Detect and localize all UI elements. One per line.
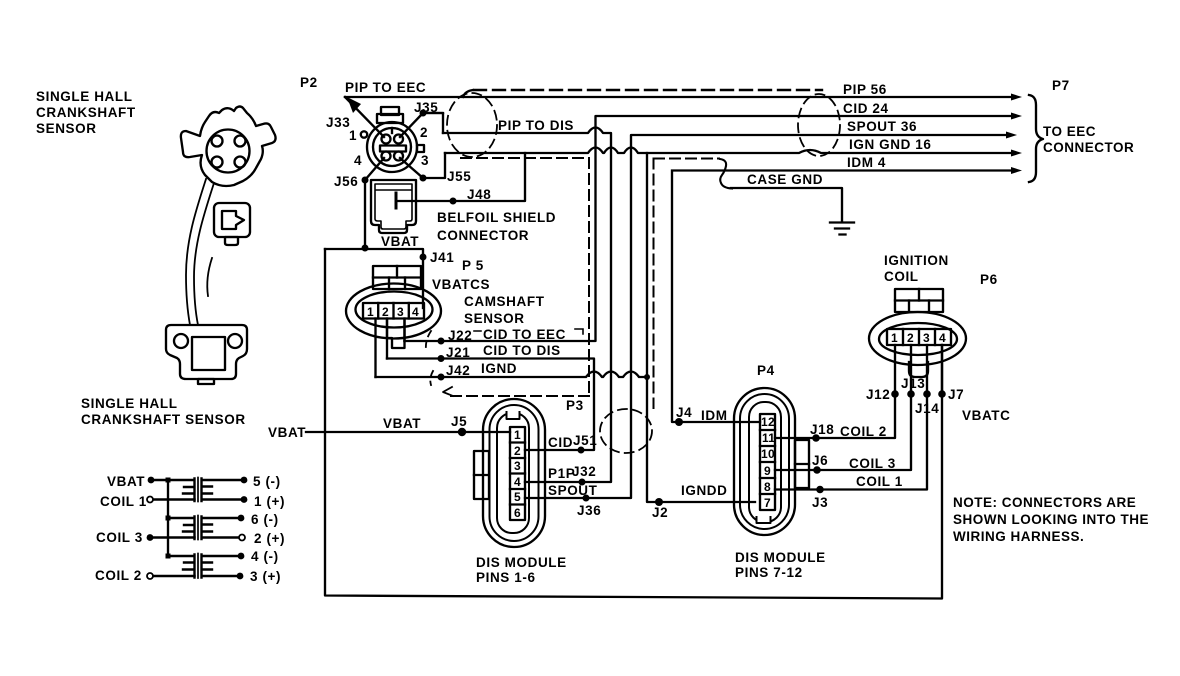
svg-text:COIL 1: COIL 1 xyxy=(100,494,147,509)
svg-text:VBAT: VBAT xyxy=(107,474,145,489)
svg-text:PINS 7-12: PINS 7-12 xyxy=(735,565,803,580)
svg-text:CONNECTOR: CONNECTOR xyxy=(1043,140,1134,155)
EEC arrowheads xyxy=(1011,94,1022,101)
shield dashes near camshaft wires xyxy=(426,331,431,350)
junction J56 xyxy=(362,177,369,184)
svg-text:COIL 3: COIL 3 xyxy=(849,456,896,471)
shield pigtail squiggle xyxy=(720,159,732,189)
svg-text:1: 1 xyxy=(367,305,374,319)
wire coil pin1 COIL 2 xyxy=(775,345,895,438)
svg-text:CRANKSHAFT SENSOR: CRANKSHAFT SENSOR xyxy=(81,412,246,427)
junction J22 xyxy=(438,338,445,345)
junction J35 xyxy=(420,110,427,117)
svg-text:2 (+): 2 (+) xyxy=(254,531,285,546)
svg-text:COIL: COIL xyxy=(884,269,919,284)
shield dashed line left channel xyxy=(451,158,589,396)
svg-text:DIS MODULE: DIS MODULE xyxy=(476,555,567,570)
shield dashed circle near EEC xyxy=(798,94,840,156)
svg-text:7: 7 xyxy=(764,496,771,510)
svg-text:11: 11 xyxy=(762,431,775,445)
svg-text:J21: J21 xyxy=(446,345,470,360)
svg-text:J13: J13 xyxy=(901,376,925,391)
crank sensor cable xyxy=(186,179,214,325)
svg-text:IGNITION: IGNITION xyxy=(884,253,949,268)
svg-text:DIS MODULE: DIS MODULE xyxy=(735,550,826,565)
svg-text:J18: J18 xyxy=(810,422,834,437)
wire J42 IGND xyxy=(376,372,648,378)
wire VBAT rail of windings xyxy=(167,480,169,556)
svg-text:5 (-): 5 (-) xyxy=(253,474,281,489)
svg-text:3: 3 xyxy=(514,459,521,473)
wire IGN GND long line xyxy=(445,148,1012,154)
connector P2 crank sensor xyxy=(361,107,424,172)
junction J42 xyxy=(438,374,445,381)
junction J13 xyxy=(907,390,915,398)
svg-text:IDM: IDM xyxy=(701,408,728,423)
label single hall crankshaft sensor (bottom) xyxy=(81,396,246,427)
svg-text:COIL 1: COIL 1 xyxy=(856,474,903,489)
brace P7 to EEC connector xyxy=(1029,95,1043,182)
junction J48 xyxy=(450,198,457,205)
camshaft sensor P5 connector xyxy=(346,266,441,348)
label single hall crankshaft sensor (top) xyxy=(36,89,136,136)
svg-text:P6: P6 xyxy=(980,272,998,287)
wire P2 pin2 to J35 xyxy=(400,113,443,137)
ignition coil P6 connector xyxy=(869,289,966,377)
wire P2 pin1 to PIP corner xyxy=(345,97,384,137)
svg-text:1 (+): 1 (+) xyxy=(254,494,285,509)
svg-text:J7: J7 xyxy=(948,387,964,402)
svg-text:IGND: IGND xyxy=(481,361,517,376)
wire P2 pin4 to J56 and VBAT rail xyxy=(365,158,384,248)
wire CASE GND xyxy=(731,188,842,222)
junction J5 xyxy=(458,428,466,436)
svg-text:J3: J3 xyxy=(812,495,828,510)
shield dashed circle near P3 xyxy=(600,409,652,453)
svg-text:3: 3 xyxy=(421,153,429,168)
svg-text:IGN GND 16: IGN GND 16 xyxy=(849,137,932,152)
svg-text:J33: J33 xyxy=(326,115,350,130)
winding terminal dots xyxy=(147,477,248,580)
wire PIP to EEC long line xyxy=(345,96,1012,98)
svg-text:J56: J56 xyxy=(334,174,358,189)
svg-text:J55: J55 xyxy=(447,169,471,184)
svg-text:SINGLE HALL: SINGLE HALL xyxy=(36,89,133,104)
svg-text:PIP 56: PIP 56 xyxy=(843,82,887,97)
crank sensor inline clip icon xyxy=(214,203,250,245)
svg-text:COIL 2: COIL 2 xyxy=(95,568,142,583)
svg-text:4: 4 xyxy=(939,331,946,345)
ground symbol xyxy=(830,223,854,235)
junction J6 xyxy=(813,466,821,474)
svg-text:SPOUT 36: SPOUT 36 xyxy=(847,119,917,134)
svg-text:J51: J51 xyxy=(573,433,597,448)
wire P2 pin3 to J55 xyxy=(400,153,445,178)
svg-text:J41: J41 xyxy=(430,250,454,265)
coil windings diagram xyxy=(95,474,285,584)
svg-text:10: 10 xyxy=(761,447,775,461)
svg-text:1: 1 xyxy=(514,428,521,442)
shield dashed circle near P2 xyxy=(447,93,497,157)
svg-text:NOTE: CONNECTORS ARE: NOTE: CONNECTORS ARE xyxy=(953,495,1136,510)
wire coil pin4 VBATC xyxy=(941,345,943,394)
svg-text:6: 6 xyxy=(514,506,521,520)
svg-text:8: 8 xyxy=(764,480,771,494)
svg-text:P4: P4 xyxy=(757,363,775,378)
junction J32 xyxy=(579,479,586,486)
svg-text:TO EEC: TO EEC xyxy=(1043,124,1096,139)
junction J3 xyxy=(816,486,824,494)
crank sensor pictorial connector xyxy=(181,107,276,187)
svg-text:SHOWN LOOKING INTO THE: SHOWN LOOKING INTO THE xyxy=(953,512,1149,527)
shield dashed arrow xyxy=(443,387,453,396)
svg-text:4 (-): 4 (-) xyxy=(251,549,279,564)
svg-text:CRANKSHAFT: CRANKSHAFT xyxy=(36,105,136,120)
wire IGND vertical trunk xyxy=(647,153,755,502)
svg-text:P 5: P 5 xyxy=(462,258,484,273)
svg-text:CID TO EEC: CID TO EEC xyxy=(483,327,566,342)
DIS module P4 connector xyxy=(734,388,809,535)
svg-text:P7: P7 xyxy=(1052,78,1070,93)
svg-text:COIL 2: COIL 2 xyxy=(840,424,887,439)
junction J7 xyxy=(938,390,946,398)
svg-text:PINS 1-6: PINS 1-6 xyxy=(476,570,536,585)
transformer T3 xyxy=(150,554,241,579)
svg-text:3: 3 xyxy=(923,331,930,345)
svg-text:VBATC: VBATC xyxy=(962,408,1011,423)
DIS module P3 connector xyxy=(474,399,545,547)
svg-text:COIL 3: COIL 3 xyxy=(96,530,143,545)
svg-text:VBATCS: VBATCS xyxy=(432,277,490,292)
svg-text:J32: J32 xyxy=(572,464,596,479)
svg-text:6 (-): 6 (-) xyxy=(251,512,279,527)
svg-text:SENSOR: SENSOR xyxy=(464,311,525,326)
junction J51 xyxy=(578,447,585,454)
svg-text:4: 4 xyxy=(354,153,362,168)
svg-text:1: 1 xyxy=(349,128,357,143)
svg-text:J42: J42 xyxy=(446,363,470,378)
arrowhead J33 xyxy=(347,97,361,113)
svg-text:J14: J14 xyxy=(915,401,939,416)
junction J41 xyxy=(420,254,427,261)
junction at belfoil vbat xyxy=(362,245,369,252)
junction J14 xyxy=(923,390,931,398)
svg-text:J48: J48 xyxy=(467,187,491,202)
svg-text:2: 2 xyxy=(514,444,521,458)
svg-text:2: 2 xyxy=(382,305,389,319)
svg-text:VBAT: VBAT xyxy=(383,416,421,431)
svg-text:CID TO DIS: CID TO DIS xyxy=(483,343,561,358)
svg-text:J36: J36 xyxy=(577,503,601,518)
svg-text:J6: J6 xyxy=(812,453,828,468)
shield dashed line right channel xyxy=(654,159,720,409)
junction J4 xyxy=(675,418,683,426)
svg-text:J2: J2 xyxy=(652,505,668,520)
svg-text:2: 2 xyxy=(420,125,428,140)
svg-text:CAMSHAFT: CAMSHAFT xyxy=(464,294,545,309)
belfoil shield connector xyxy=(371,180,416,233)
svg-text:P3: P3 xyxy=(566,398,584,413)
wire coil pin2 COIL 3 xyxy=(775,345,911,470)
wire J22 CID to EEC xyxy=(405,116,1013,341)
svg-text:J12: J12 xyxy=(866,387,890,402)
svg-text:5: 5 xyxy=(514,490,521,504)
svg-text:9: 9 xyxy=(764,464,771,478)
svg-text:3: 3 xyxy=(397,305,404,319)
crank sensor body xyxy=(166,325,247,384)
winding open terminals xyxy=(147,497,245,580)
svg-text:IDM 4: IDM 4 xyxy=(847,155,886,170)
wire IDM xyxy=(672,171,1013,423)
svg-text:IGNDD: IGNDD xyxy=(681,483,728,498)
transformer T1 xyxy=(150,478,244,502)
camshaft pin wires down xyxy=(374,319,376,378)
svg-text:2: 2 xyxy=(907,331,914,345)
svg-text:CID 24: CID 24 xyxy=(843,101,889,116)
svg-text:3 (+): 3 (+) xyxy=(250,569,281,584)
svg-text:VBAT: VBAT xyxy=(268,425,306,440)
junction J55 xyxy=(420,175,427,182)
wire VBAT top rail xyxy=(325,249,423,308)
svg-text:WIRING HARNESS.: WIRING HARNESS. xyxy=(953,529,1084,544)
transformer T2 xyxy=(150,516,242,540)
svg-text:CASE GND: CASE GND xyxy=(747,172,823,187)
svg-text:CONNECTOR: CONNECTOR xyxy=(437,228,529,243)
svg-text:PIP TO DIS: PIP TO DIS xyxy=(498,118,574,133)
junction J12 xyxy=(891,390,899,398)
shield dashed line over PIP xyxy=(474,89,822,91)
svg-text:4: 4 xyxy=(514,475,521,489)
svg-text:CID: CID xyxy=(548,435,573,450)
svg-text:4: 4 xyxy=(412,305,419,319)
svg-text:PIP TO EEC: PIP TO EEC xyxy=(345,80,426,95)
junction J2 xyxy=(655,498,663,506)
junction J18 xyxy=(812,434,820,442)
wire PIP TO DIS xyxy=(423,113,611,482)
wire J48 belfoil shield to ground line xyxy=(396,153,525,201)
wire J21 CID to DIS xyxy=(387,359,594,451)
svg-text:SPOUT: SPOUT xyxy=(548,483,598,498)
junction J21 xyxy=(438,355,445,362)
svg-text:BELFOIL SHIELD: BELFOIL SHIELD xyxy=(437,210,556,225)
svg-text:SENSOR: SENSOR xyxy=(36,121,97,136)
note text xyxy=(953,495,1149,544)
wire VBAT border loop xyxy=(325,249,942,599)
svg-text:P2: P2 xyxy=(300,75,318,90)
svg-text:SINGLE HALL: SINGLE HALL xyxy=(81,396,178,411)
junction J36 xyxy=(583,495,590,502)
svg-text:J5: J5 xyxy=(451,414,467,429)
junction IGND at 377 xyxy=(644,374,650,380)
svg-text:1: 1 xyxy=(891,331,898,345)
svg-text:VBAT: VBAT xyxy=(381,234,419,249)
svg-text:J4: J4 xyxy=(676,405,692,420)
wire SPOUT from pin5 xyxy=(525,135,1007,498)
svg-text:12: 12 xyxy=(761,415,775,429)
svg-text:J22: J22 xyxy=(448,328,472,343)
wire VBAT to DIS module pin1 xyxy=(306,431,510,433)
wire coil pin3 COIL 1 xyxy=(775,345,927,490)
